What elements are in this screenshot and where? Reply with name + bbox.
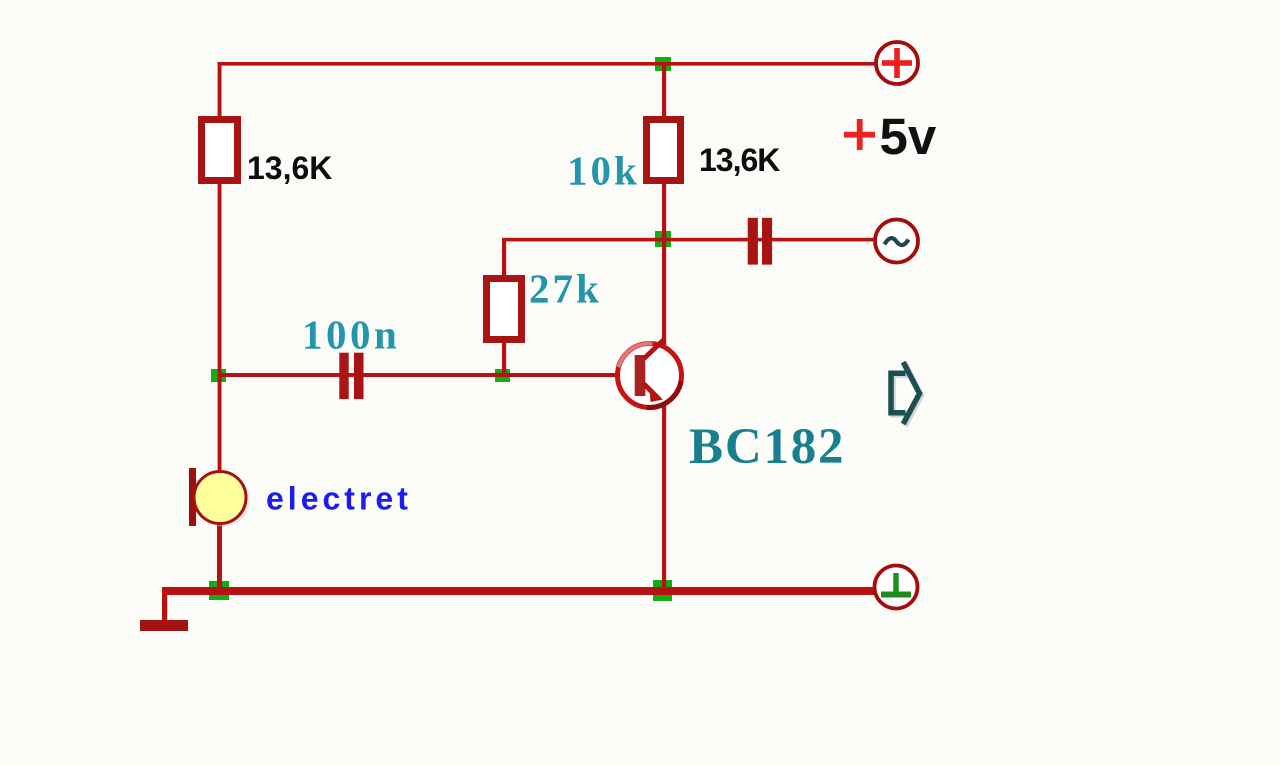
svg-text:BC182: BC182	[689, 419, 845, 475]
svg-text:10k: 10k	[567, 148, 640, 194]
svg-text:5v: 5v	[880, 108, 937, 165]
svg-text:electret: electret	[266, 481, 412, 517]
svg-text:100n: 100n	[302, 312, 400, 358]
svg-text:13,6K: 13,6K	[247, 150, 332, 186]
svg-text:13,6K: 13,6K	[699, 142, 780, 178]
svg-text:27k: 27k	[529, 266, 602, 312]
